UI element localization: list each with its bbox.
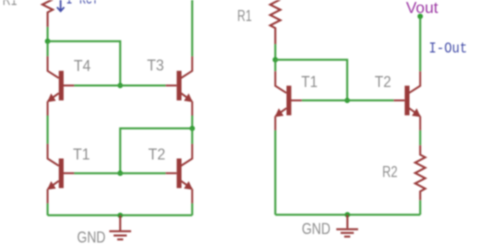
wire: base node to T2 base stub [120, 172, 166, 174]
wire: bottom rail (right circuit) [275, 214, 420, 216]
transistor T4 (mirrored NPN) [47, 56, 74, 115]
transistor T1 (right circuit, mirrored NPN) [275, 71, 302, 130]
wire: R1 to node B [274, 44, 276, 60]
svg-text:GND: GND [77, 229, 106, 246]
svg-text:T2: T2 [375, 74, 391, 91]
transistor T1 (left circuit, mirrored NPN) [47, 144, 74, 204]
svg-text:R1: R1 [237, 8, 252, 25]
svg-text:Vout: Vout [406, 0, 439, 17]
junction dot T4/T3 bases [118, 83, 123, 88]
wire: R2 to bottom rail [419, 200, 421, 214]
svg-text:GND: GND [302, 221, 331, 238]
transistor T2 (left circuit, NPN) [166, 144, 193, 204]
node B junction dot [273, 57, 278, 62]
wire: Vout down to T2 collector [419, 16, 421, 71]
junction dot T1/T2 bases [118, 171, 123, 176]
wire: T3 emitter down to junction [191, 116, 193, 129]
svg-text:I-Out: I-Out [429, 40, 468, 57]
wire: base node to T4 base stub [74, 85, 120, 87]
svg-text:R1: R1 [3, 0, 18, 9]
current arrow I-Ref (blue) [57, 0, 64, 11]
wire: bottom rail (left circuit) [48, 214, 193, 216]
wire: junction down to T2 collector [191, 128, 193, 144]
transistor T2 (right circuit, NPN) [394, 71, 421, 130]
svg-text:T3: T3 [147, 58, 164, 75]
ground symbol (right) [336, 215, 358, 237]
wire: node A down to T4 collector [47, 41, 49, 56]
wire: R1 bottom to node A [47, 27, 49, 41]
wire: node A right and down to base node [48, 41, 121, 85]
wire: diode connection to T1/T2 bases [120, 128, 192, 173]
svg-text:T1: T1 [301, 74, 317, 91]
wire: T4 emitter down to T1 collector [47, 116, 49, 144]
svg-text:T1: T1 [73, 147, 90, 164]
wire: T3 collector to top edge [191, 0, 193, 56]
junction dot at GND (left) [118, 213, 123, 218]
wire: base node to T2 base stub (right) [347, 99, 394, 101]
node Vout dot [418, 14, 423, 19]
node A junction dot [45, 39, 50, 44]
resistor R1 (right circuit) [270, 0, 280, 44]
wire: T2 emitter to bottom rail [191, 203, 193, 215]
wire: base node to T3 base stub [120, 85, 166, 87]
svg-text:T4: T4 [74, 58, 91, 75]
ground symbol (left) [109, 215, 131, 239]
transistor T3 (NPN) [166, 56, 193, 115]
wire: node B down to T1 collector [274, 60, 276, 71]
wire: T1 emitter down to bottom rail (right) [274, 130, 276, 214]
wire: base node to T1 base stub [74, 172, 120, 174]
resistor R1 (left circuit) [42, 0, 52, 27]
wire: T1 emitter to bottom rail [47, 203, 49, 215]
resistor R2 [415, 145, 425, 200]
svg-text:I-Ref: I-Ref [66, 0, 99, 9]
wire: T2 emitter to R2 [419, 130, 421, 145]
wire: node B right and down to base node [275, 60, 347, 101]
junction dot at GND (right) [345, 212, 350, 217]
svg-text:R2: R2 [382, 164, 397, 181]
wire: base node to T1 base stub (right) [302, 99, 347, 101]
svg-text:T2: T2 [148, 147, 165, 164]
junction dot T1/T2 bases (right) [345, 98, 350, 103]
junction dot on T3-T2 rail [190, 126, 195, 131]
